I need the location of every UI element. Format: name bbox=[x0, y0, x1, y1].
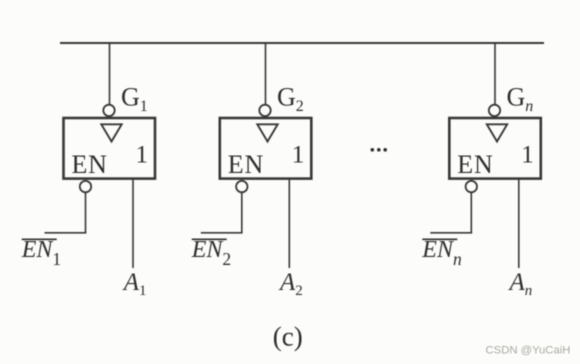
bubble on ENn input bbox=[466, 181, 477, 192]
svg-text:EN: EN bbox=[72, 150, 108, 179]
bubble on tri-state control pin G1 bbox=[103, 105, 114, 116]
svg-text:EN: EN bbox=[228, 150, 264, 179]
wire EN1 horizontal segment bbox=[45, 232, 87, 234]
wire EN2 vertical segment bbox=[241, 192, 243, 233]
bubble on tri-state control pin Gn bbox=[489, 105, 500, 116]
wire bus to gate G2 bubble bbox=[265, 43, 267, 105]
inversion triangle of U2 bbox=[257, 124, 277, 141]
inversion triangle of Un bbox=[487, 124, 507, 141]
inversion triangle of U1 bbox=[101, 124, 121, 141]
wire output An bbox=[518, 179, 520, 268]
svg-text:CSDN @YuCaiH: CSDN @YuCaiH bbox=[486, 345, 571, 357]
ellipsis (more gates) bbox=[371, 148, 388, 152]
wire output A2 bbox=[288, 179, 290, 268]
bus wire (common data bus) bbox=[60, 42, 544, 44]
wire ENn horizontal segment bbox=[430, 232, 472, 234]
net label ENn (active-low enable, overline) bbox=[421, 237, 462, 269]
bubble on EN2 input bbox=[236, 181, 247, 192]
tri-state buffer Un body bbox=[449, 118, 541, 179]
wire ENn vertical segment bbox=[470, 192, 472, 233]
svg-text:1: 1 bbox=[521, 142, 534, 169]
svg-text:1: 1 bbox=[292, 142, 305, 169]
svg-text:(c): (c) bbox=[273, 322, 303, 352]
svg-text:1: 1 bbox=[136, 142, 149, 169]
svg-text:EN: EN bbox=[457, 150, 493, 179]
net label EN2 (active-low enable, overline) bbox=[191, 237, 231, 269]
tri-state buffer U2 body bbox=[220, 118, 311, 179]
wire bus to gate G1 bubble bbox=[109, 43, 111, 105]
bubble on EN1 input bbox=[80, 181, 91, 192]
bubble on tri-state control pin G2 bbox=[259, 105, 270, 116]
net label EN1 (active-low enable, overline) bbox=[21, 237, 61, 269]
wire EN1 vertical segment bbox=[85, 192, 87, 233]
wire output A1 bbox=[132, 179, 134, 268]
wire bus to gate Gn bubble bbox=[494, 43, 496, 105]
wire EN2 horizontal segment bbox=[201, 232, 243, 234]
tri-state buffer U1 body bbox=[64, 118, 156, 179]
